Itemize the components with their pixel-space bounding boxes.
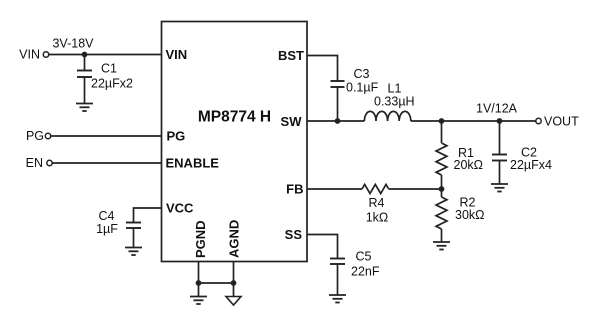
pin label VCC <box>166 201 194 216</box>
capacitor C3 <box>331 81 345 87</box>
node VIN junction <box>82 52 88 58</box>
wire EN input <box>52 162 161 164</box>
capacitor C5 <box>330 259 345 265</box>
pin label SW <box>281 114 303 129</box>
wire PG input <box>51 135 162 137</box>
node SW-C3 junction <box>335 118 341 124</box>
resistor R2 <box>436 197 447 229</box>
pin label AGND <box>227 220 242 258</box>
svg-text:EN: EN <box>26 156 43 170</box>
label 0.33uH <box>374 94 415 108</box>
op-amp U1 (MP8774H IC body) <box>162 22 308 262</box>
label C2 <box>521 145 537 159</box>
ground AGND triangle <box>226 297 241 306</box>
label 22nF <box>351 264 380 278</box>
pin label FB <box>286 182 303 197</box>
pin label BST <box>278 48 304 63</box>
label R2 <box>460 195 476 209</box>
label 1kOhm <box>366 211 389 225</box>
label EN terminal <box>26 156 43 170</box>
terminal VIN circle <box>43 52 48 57</box>
label C1 <box>101 62 117 76</box>
node AGND junction <box>231 280 237 286</box>
wire inductor to VOUT <box>411 120 536 122</box>
wire C3 bottom <box>337 87 339 121</box>
label VIN terminal <box>19 48 40 62</box>
wire C1 bottom <box>84 77 86 104</box>
wire PGND-AGND link <box>199 282 234 284</box>
wire C1 top <box>84 55 86 71</box>
wire FB to R4 <box>307 188 362 190</box>
svg-text:1V/12A: 1V/12A <box>476 102 518 116</box>
wire AGND pin <box>233 262 235 297</box>
wire PGND pin <box>198 262 200 297</box>
wire C5 bottom <box>337 264 339 295</box>
svg-text:ENABLE: ENABLE <box>166 156 220 171</box>
terminal PG circle <box>45 133 50 138</box>
resistor R1 <box>436 143 447 175</box>
svg-text:VOUT: VOUT <box>544 115 579 129</box>
label C4 <box>99 209 115 223</box>
svg-text:0.33µH: 0.33µH <box>374 94 415 108</box>
node VOUT-R1 junction <box>439 118 445 124</box>
svg-text:1kΩ: 1kΩ <box>366 211 389 225</box>
wire R2 bottom <box>441 229 443 242</box>
svg-text:C3: C3 <box>354 67 370 81</box>
inductor L1 <box>364 111 410 121</box>
capacitor C4 <box>126 223 141 229</box>
svg-text:AGND: AGND <box>227 220 242 258</box>
ground C4 <box>125 248 142 256</box>
wire VCC <box>134 208 162 223</box>
svg-text:VIN: VIN <box>166 47 188 62</box>
svg-text:R4: R4 <box>369 196 385 210</box>
pin label PGND <box>193 220 208 258</box>
wire R4 to node <box>389 188 442 190</box>
label VOUT terminal <box>544 115 579 129</box>
svg-text:C1: C1 <box>101 62 117 76</box>
ground C2 <box>491 184 508 192</box>
label PG terminal <box>26 129 44 143</box>
label 22uFx4 <box>510 158 552 172</box>
svg-text:C4: C4 <box>99 209 115 223</box>
wire SW to inductor <box>307 120 364 122</box>
wire VIN input <box>49 54 162 56</box>
capacitor C2 <box>492 155 507 161</box>
pin label VIN <box>166 47 188 62</box>
ground PGND <box>190 297 207 305</box>
terminal EN circle <box>47 160 52 165</box>
svg-text:30kΩ: 30kΩ <box>455 208 485 222</box>
wire C2 bottom <box>499 161 501 185</box>
svg-text:22µFx4: 22µFx4 <box>510 158 552 172</box>
label L1 <box>388 81 402 95</box>
wire C2 top <box>499 121 501 155</box>
svg-text:FB: FB <box>286 182 303 197</box>
node PGND junction <box>196 280 202 286</box>
node VOUT-C2 junction <box>497 118 503 124</box>
label MP8774H <box>198 109 271 126</box>
svg-text:VIN: VIN <box>19 48 40 62</box>
pin label PG <box>167 129 186 144</box>
wire C4 bottom <box>133 228 135 248</box>
ground C5 <box>329 295 346 303</box>
label 30kOhm <box>455 208 485 222</box>
terminal VOUT circle <box>536 118 541 123</box>
label 0.1uF <box>346 81 379 95</box>
label 1uF <box>96 222 118 236</box>
label 20kOhm <box>454 158 484 172</box>
svg-text:SS: SS <box>285 227 303 242</box>
label 1V/12A <box>476 102 518 116</box>
label R4 <box>369 196 385 210</box>
wire R1 bottom <box>441 175 443 197</box>
wire R1 top <box>441 121 443 143</box>
svg-text:22nF: 22nF <box>351 264 380 278</box>
svg-text:PG: PG <box>167 129 186 144</box>
pin label ENABLE <box>166 156 220 171</box>
svg-text:20kΩ: 20kΩ <box>454 158 484 172</box>
svg-text:1µF: 1µF <box>96 222 118 236</box>
label R1 <box>458 146 474 160</box>
svg-text:MP8774 H: MP8774 H <box>198 109 271 126</box>
svg-text:PG: PG <box>26 129 44 143</box>
svg-text:PGND: PGND <box>193 220 208 258</box>
svg-text:L1: L1 <box>388 81 402 95</box>
node FB junction <box>439 186 445 192</box>
svg-text:VCC: VCC <box>166 201 194 216</box>
wire BST <box>307 56 338 82</box>
capacitor C1 <box>77 71 92 78</box>
label C5 <box>356 250 372 264</box>
svg-text:3V-18V: 3V-18V <box>52 37 94 51</box>
svg-text:BST: BST <box>278 48 304 63</box>
label 22uFx2 <box>91 77 133 91</box>
ground C1 <box>76 104 93 112</box>
svg-text:C5: C5 <box>356 250 372 264</box>
ground R2 <box>433 242 450 250</box>
pin label SS <box>285 227 303 242</box>
svg-text:SW: SW <box>281 114 303 129</box>
wire SS <box>307 235 338 259</box>
resistor R4 <box>362 184 389 193</box>
svg-text:0.1µF: 0.1µF <box>346 81 379 95</box>
svg-text:22µFx2: 22µFx2 <box>91 77 133 91</box>
label 3V-18V <box>52 37 94 51</box>
label C3 <box>354 67 370 81</box>
